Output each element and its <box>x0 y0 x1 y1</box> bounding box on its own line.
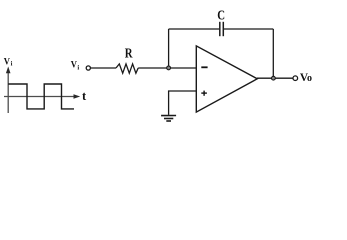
node Vi axis label <box>4 56 13 67</box>
wire: feedback top left segment <box>169 28 220 30</box>
output terminal (open circle) <box>293 76 298 81</box>
svg-text:i: i <box>77 65 79 72</box>
wire: op-amp output <box>257 77 293 79</box>
waveform vertical axis (Vi) with arrowhead <box>7 72 9 114</box>
svg-text:V: V <box>71 60 77 71</box>
wire: input terminal to resistor <box>91 67 117 69</box>
wire: feedback top right segment <box>224 28 273 30</box>
resistor R <box>116 64 138 73</box>
wire: feedback drop to output node <box>272 29 274 78</box>
wire: feedback riser from input node <box>168 29 170 68</box>
node Vo output label <box>300 70 312 84</box>
pin - (inverting input marker) <box>201 66 207 68</box>
input terminal (open circle) <box>86 66 90 70</box>
pin + (non-inverting input marker) <box>201 91 207 96</box>
waveform time axis (t) with arrowhead <box>4 96 75 98</box>
svg-text:V: V <box>4 56 10 67</box>
capacitor C <box>220 22 224 36</box>
node B (output junction) <box>272 76 276 80</box>
svg-text:R: R <box>125 47 133 62</box>
ground <box>161 116 176 122</box>
wire: resistor to op-amp inverting input <box>138 67 196 69</box>
node Vi input label <box>71 60 80 72</box>
node A (junction at inverting input) <box>167 66 171 70</box>
op-amp U1 <box>196 46 257 112</box>
svg-text:o: o <box>307 73 312 84</box>
svg-text:C: C <box>217 7 225 22</box>
wire: non-inverting input to ground <box>169 91 196 115</box>
svg-text:i: i <box>11 61 13 68</box>
square wave input signal <box>8 84 74 109</box>
